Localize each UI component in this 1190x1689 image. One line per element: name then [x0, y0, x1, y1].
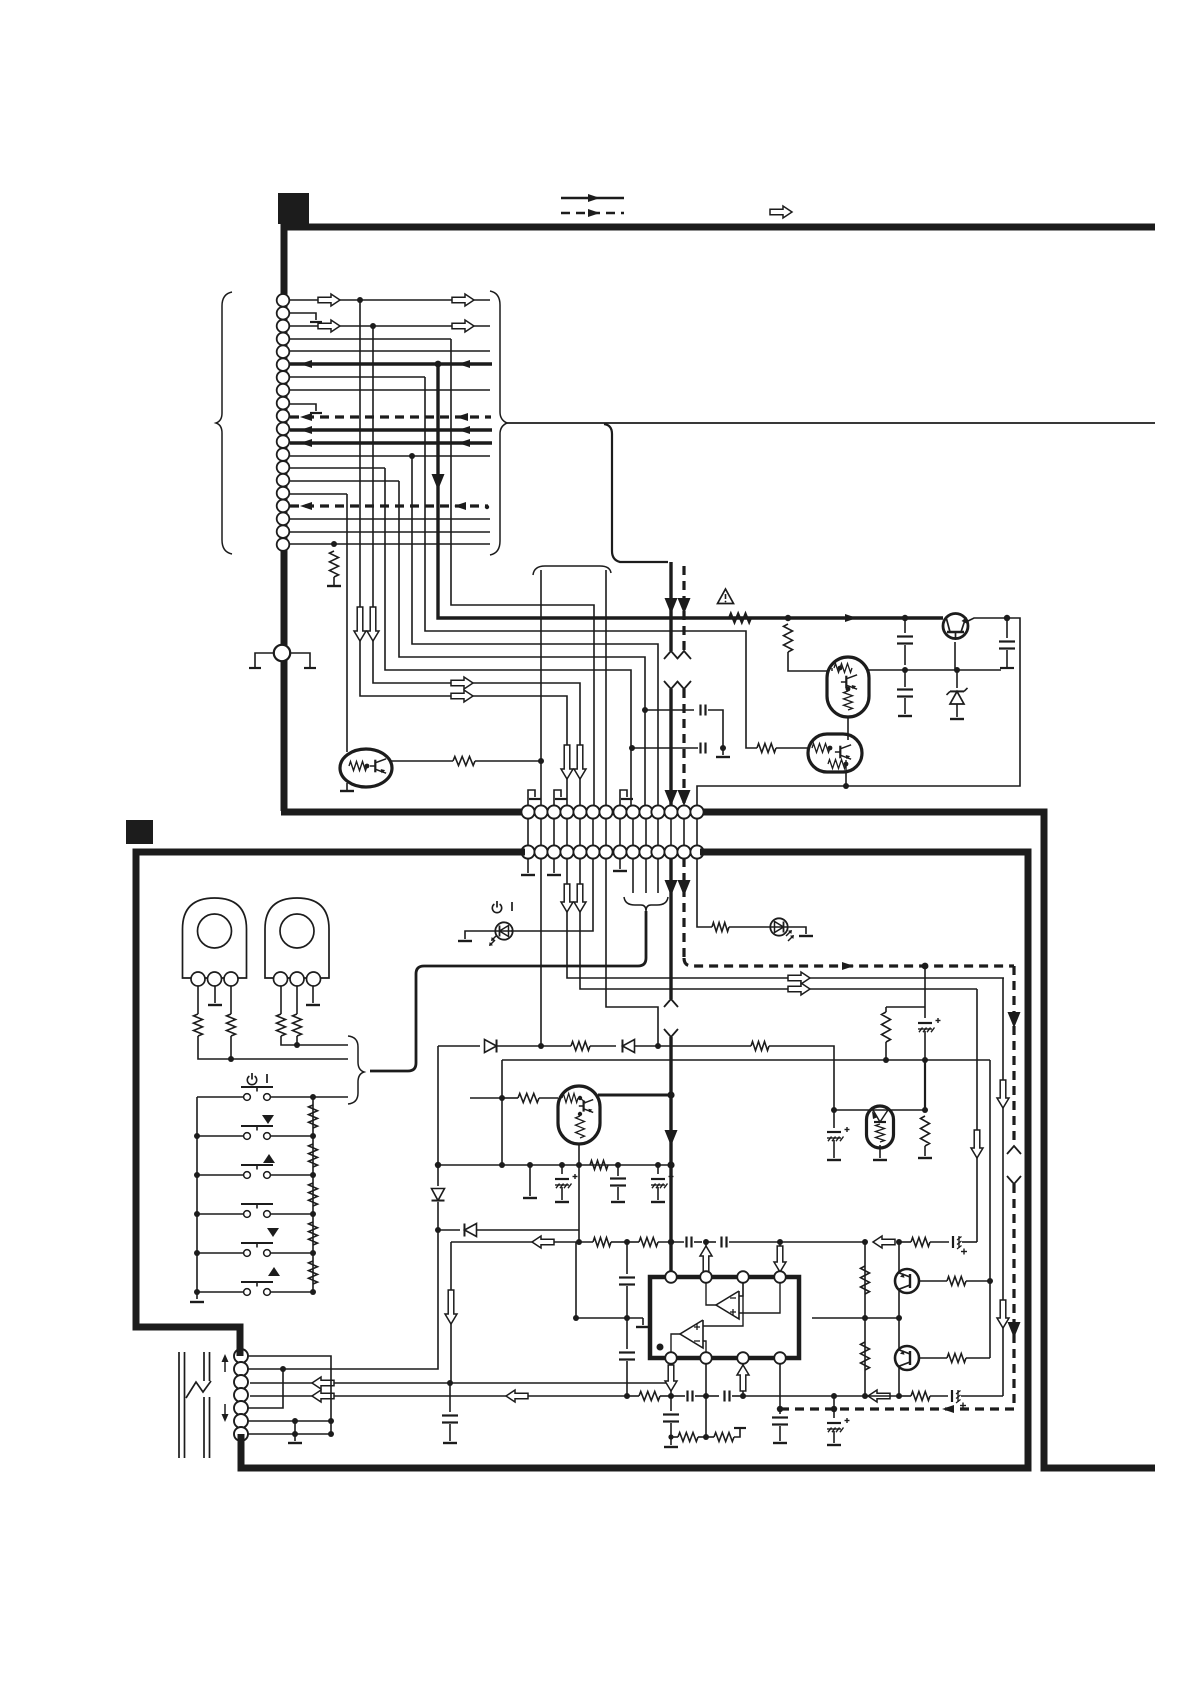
terminal stub right	[290, 653, 316, 668]
op-amp A wires	[706, 1283, 780, 1313]
bar y1007	[886, 1006, 925, 1008]
switch row1 to brace	[313, 1096, 348, 1098]
Q204 collector down	[896, 1368, 902, 1399]
jack pin2 wire	[248, 1368, 283, 1370]
bold wire from brace to key block	[370, 911, 646, 1071]
U201 pin3 bottom stub	[737, 1364, 749, 1396]
resistor R103 on power line	[729, 614, 751, 623]
bus branch elbow down	[604, 424, 668, 562]
resistor R212	[751, 1042, 769, 1051]
node dot cap tap	[902, 615, 908, 621]
Q204 emitter up	[898, 1318, 900, 1348]
resistor R211	[541, 1042, 616, 1051]
resistor R219	[899, 1238, 930, 1247]
dashed bottom run	[777, 1405, 1014, 1413]
connector CN101 pins (20)	[277, 294, 290, 551]
sensor A pin3 wire	[230, 986, 232, 1014]
line y1396 right	[743, 1390, 899, 1402]
brace under pins B9-B11	[624, 858, 668, 911]
wire row6 thick with arrows	[290, 360, 492, 368]
supply rail y1165	[438, 1162, 671, 1168]
PCB border: main board bottom edge right of connector	[700, 812, 1155, 1468]
marker down sw2	[262, 1115, 274, 1124]
LED D202 (power)	[489, 922, 513, 946]
wire drop x399 row15	[399, 481, 645, 806]
Q202 internals	[562, 1094, 593, 1139]
line to R212	[658, 1045, 751, 1047]
NC tick pin A8	[620, 790, 633, 806]
transistor Q101 (digital, stadium)	[340, 749, 392, 787]
wire Q102 emitter to node	[966, 615, 1010, 622]
capacitor C204	[610, 1165, 626, 1202]
wire B12 thick down	[664, 858, 678, 1007]
stub gnd pin B8	[613, 858, 627, 871]
drop x502	[499, 1060, 505, 1168]
jack pin5 wire	[248, 1369, 283, 1408]
resistor R101	[330, 551, 339, 577]
op-amp B wires	[671, 1283, 743, 1352]
op-amp B triangle	[680, 1320, 703, 1348]
jack arrows	[222, 1354, 229, 1422]
wire row9 NC stub	[290, 404, 322, 413]
PCB border: lower board right part	[241, 852, 1028, 1468]
power icon LED1	[492, 901, 512, 913]
wire row18	[290, 518, 490, 520]
LED D201	[729, 918, 794, 941]
jack gnd	[288, 1421, 302, 1443]
x925 from dashed	[924, 966, 926, 1007]
wire B4 down-right	[561, 858, 1004, 978]
capacitor C212	[442, 1383, 458, 1443]
U201 pin2 bottom stub	[705, 1364, 707, 1437]
row y1242 right	[780, 1236, 902, 1248]
jog sensor A body	[183, 898, 247, 986]
IC pin2 top wire	[700, 1242, 712, 1273]
terminal stub left	[249, 653, 274, 668]
power icon switches	[247, 1073, 267, 1085]
sensor A pin1 to bus	[198, 1036, 348, 1062]
wire B14 to LED2	[697, 858, 712, 927]
Q202 base resistor R215	[502, 1094, 558, 1103]
wire drop x373 row3	[367, 326, 580, 806]
resistor R217	[576, 1238, 630, 1247]
section marker square (main board)	[278, 193, 309, 224]
brace right of connector rows	[490, 291, 507, 555]
node dot R104 tap	[785, 615, 791, 621]
cap pair ground	[716, 748, 730, 757]
NC tick pin A3	[554, 790, 567, 806]
resistor R227	[706, 1428, 746, 1442]
Q203 collector down	[896, 1291, 902, 1321]
cap line 2	[629, 745, 726, 751]
PCB border: main board bottom edge left of connector	[281, 809, 525, 816]
resistor R218	[627, 1238, 684, 1247]
line y1396 left	[250, 1390, 627, 1402]
U201 pin4 bottom stub	[779, 1364, 781, 1409]
op-amp A triangle	[716, 1291, 739, 1319]
dashed vertical right side	[1007, 966, 1021, 1154]
gnd x671	[664, 1434, 678, 1447]
wire drop x347 row16	[346, 494, 348, 752]
wire drop x425 row7	[425, 377, 757, 748]
marker up sw6	[268, 1267, 280, 1276]
bias line	[866, 667, 1001, 673]
ground for R101	[327, 577, 341, 586]
Q101 emitter ground	[340, 783, 354, 791]
U201 bottom pins	[665, 1352, 786, 1364]
transistor Q201 (digital, stadium)	[867, 1106, 894, 1148]
wire fan to pin7	[605, 570, 607, 806]
sensor B pin1 to bus	[281, 1036, 348, 1048]
capacitor C205 (elec)	[651, 1165, 674, 1202]
capacitor C206	[687, 1237, 710, 1248]
wire row11 thick with arrows	[290, 426, 492, 434]
capacitor C209	[573, 1242, 579, 1321]
board-to-board connector row B (14 pins)	[521, 845, 703, 858]
R212 elbow down	[769, 1046, 837, 1113]
resistor R226	[671, 1433, 709, 1442]
jack pin6 wire	[248, 1418, 331, 1424]
capacitor C218 (elec)	[827, 1409, 850, 1445]
Q103 emitter down	[847, 717, 849, 740]
wire row3 with arrows	[290, 320, 490, 332]
transistor Q104 (digital, stadium)	[808, 734, 862, 772]
wire dashed bus down lower	[677, 681, 691, 806]
enclosure wire right	[697, 618, 1020, 806]
brace gathering key lines	[348, 1036, 364, 1104]
audio row y1242	[451, 1236, 576, 1248]
resistor R224	[627, 1392, 674, 1401]
U201 top pins	[665, 1271, 786, 1283]
wire row4	[290, 338, 451, 340]
transistor Q204	[895, 1346, 919, 1370]
x834 link	[833, 1396, 835, 1409]
Q104 internals	[812, 744, 851, 771]
capacitor C104	[701, 705, 706, 716]
Q104 emitter to rail	[843, 771, 849, 789]
chassis terminal on border	[274, 645, 290, 661]
wire row17 dashed with arrows	[290, 502, 489, 510]
jack pin7 wire	[248, 1431, 331, 1437]
wire drop x412 row13	[412, 456, 658, 806]
resistor R201	[712, 923, 729, 932]
legend solid signal line	[561, 194, 624, 202]
audio line y1060	[502, 1057, 990, 1063]
resistor R204	[277, 1014, 286, 1036]
supply line elbow	[435, 1046, 441, 1168]
resistor R202	[194, 1014, 203, 1036]
wire row8	[290, 389, 490, 391]
gnd stub y1318	[636, 1318, 650, 1327]
transistor Q102	[943, 614, 968, 641]
headphone jack body	[179, 1352, 210, 1458]
diode D205 line	[438, 1224, 579, 1237]
line y1383	[250, 1377, 674, 1389]
sensor A pin3 drop	[230, 1036, 232, 1059]
resistor R213	[882, 1007, 891, 1060]
wire B5 down-right	[574, 858, 977, 989]
switch bus right	[310, 1094, 316, 1295]
wire thick bus down	[664, 562, 678, 659]
switch bus left	[194, 1097, 200, 1299]
line x451 feedback	[445, 1242, 457, 1386]
x865 column	[862, 1242, 868, 1399]
capacitor C214	[706, 1391, 746, 1402]
wire row15	[290, 480, 399, 482]
resistor R102	[453, 757, 475, 766]
jack switch contact	[186, 1381, 211, 1398]
capacitor C213	[671, 1391, 709, 1402]
stub gnd pin B3	[547, 858, 561, 875]
resistor R225	[899, 1392, 930, 1401]
jack connector pins (7)	[234, 1349, 248, 1441]
R102 to node	[475, 758, 544, 764]
marker up sw3	[263, 1154, 275, 1163]
Q201 internals	[872, 1110, 888, 1142]
transistor Q103 (digital, stadium)	[827, 657, 869, 717]
stub gnd pin B1	[521, 858, 535, 875]
wire row16	[290, 493, 347, 495]
jog sensor B body	[265, 898, 329, 986]
wire row7	[290, 376, 425, 378]
resistor R203	[227, 1014, 236, 1036]
wire dashed bus down	[677, 566, 691, 659]
sensor B pin3 ground	[306, 986, 320, 1005]
capacitor C105	[701, 743, 706, 754]
sensor A pin1 wire	[197, 986, 199, 1014]
resistor R214	[918, 1116, 932, 1158]
sensor B pin2 wire	[296, 986, 298, 1014]
wire thick bus down lower	[664, 681, 678, 806]
capacitor C217	[772, 1409, 788, 1443]
wire drop x451 row4	[451, 339, 594, 806]
wire row19	[290, 531, 490, 533]
U201 pin1 bottom stub	[665, 1364, 677, 1396]
row y1318 right	[812, 1315, 899, 1321]
section marker square (lower board)	[126, 820, 153, 844]
cap line 1	[642, 707, 694, 713]
Q202 emitter	[576, 1143, 582, 1245]
Q201 emitter ground	[873, 1145, 887, 1160]
wire drop x360 row1	[354, 300, 567, 806]
R104 elbow to bias line	[788, 652, 829, 671]
wire B13 dashed to right	[678, 858, 1015, 970]
capacitor C215 (elec)	[930, 1390, 1003, 1409]
resistor ladder R206-R210	[309, 1105, 318, 1284]
capacitor C101	[897, 618, 913, 665]
dashed vertical right side lower	[1007, 1176, 1021, 1409]
capacitor C103	[999, 618, 1015, 668]
x438 to jack	[280, 1230, 438, 1372]
zener diode D101	[947, 670, 968, 719]
resistor R222	[861, 1266, 870, 1294]
wire fan to pin2	[540, 570, 542, 806]
wire row13	[290, 453, 490, 459]
wire row5	[290, 350, 490, 352]
Q103 internals	[832, 664, 857, 711]
diode D203	[622, 1040, 661, 1053]
resistor R216	[590, 1161, 608, 1170]
capacitor C211	[619, 1318, 635, 1399]
elbow x1003	[997, 978, 1009, 1396]
resistor R105	[757, 744, 809, 753]
legend dashed signal line	[561, 209, 624, 217]
sensor B pin1 wire	[280, 986, 282, 1014]
switch bus ground	[190, 1301, 204, 1303]
bus line to right edge	[507, 422, 1155, 424]
capacitor C203 (elec)	[555, 1165, 578, 1202]
wire B12 thick lower	[664, 1029, 678, 1274]
legend hollow arrow	[770, 206, 792, 218]
PCB border: lower board	[136, 852, 525, 1350]
wire row20	[290, 541, 490, 547]
wire base line y1110	[834, 1107, 928, 1113]
wire drop x385 row14	[385, 468, 631, 806]
IC pin4 top wire	[774, 1242, 786, 1273]
wire row12 thick with arrows	[290, 439, 492, 447]
wire row14	[290, 467, 385, 469]
marker down sw5	[267, 1228, 279, 1237]
white right arrows mid	[788, 972, 810, 995]
border link to jack	[240, 1348, 241, 1444]
capacitor C102	[897, 670, 913, 716]
board-to-board connector row A (14 pins)	[521, 805, 703, 818]
op-amp IC U201	[650, 1277, 799, 1358]
LED D202 ground	[458, 931, 495, 941]
capacitor C210	[619, 1242, 635, 1321]
brace grouping left connector	[216, 292, 232, 554]
capacitor C201 (elec)	[918, 1007, 941, 1060]
wire drop x438 thick power	[432, 364, 944, 622]
row y1318 left	[576, 1317, 643, 1319]
sensor A pin2 ground	[208, 986, 222, 1005]
resistor R223	[861, 1342, 870, 1370]
resistor R205	[293, 1014, 302, 1036]
wire row2 NC stub	[290, 313, 322, 322]
sensor B pin2 drop	[296, 1036, 298, 1045]
PCB border: main board (top)	[284, 227, 1155, 811]
capacitor C208 (elec)	[930, 1236, 977, 1255]
resistor R104	[784, 624, 793, 652]
push switches SW1-SW6	[197, 1087, 313, 1295]
NC tick pin A1	[528, 790, 541, 806]
wire row10 dashed with arrows	[290, 413, 491, 421]
capacitor C202 (elec)	[827, 1110, 850, 1160]
LED D201 ground	[787, 927, 813, 936]
Q204 base resistor R221	[919, 1354, 990, 1363]
wire row1 with arrows	[290, 294, 490, 306]
fan brace	[533, 566, 611, 575]
transistor Q202 (digital, stadium)	[558, 1086, 600, 1144]
cap joint	[708, 710, 723, 748]
connector inter-row wires	[528, 818, 697, 846]
warning triangle	[718, 589, 734, 604]
base line stub left	[470, 1097, 502, 1099]
elbow x977	[971, 989, 983, 1242]
capacitor C216	[663, 1396, 679, 1437]
capacitor C207	[706, 1237, 783, 1248]
x925 lower	[924, 1060, 926, 1110]
wire B2 down	[540, 858, 542, 1046]
rail ground stub	[523, 1165, 537, 1198]
diode D204	[432, 1165, 445, 1233]
Q101 internals	[349, 759, 386, 773]
elbow x990 down	[987, 1060, 993, 1358]
Q202 collector thick	[598, 1094, 671, 1097]
white down arrows above row A	[561, 745, 586, 779]
Q203 emitter up	[898, 1242, 900, 1271]
Q203 base resistor R220	[919, 1277, 990, 1286]
wire B7 down	[606, 858, 658, 1046]
Q102 collector down	[954, 642, 956, 670]
transistor Q203	[895, 1269, 919, 1293]
U201 pin1 mark	[657, 1344, 664, 1351]
jack pin1 wire	[248, 1356, 334, 1437]
diode D202a	[438, 1040, 544, 1053]
wire B6 to power LED	[511, 858, 593, 931]
Q101 output line	[390, 760, 453, 762]
